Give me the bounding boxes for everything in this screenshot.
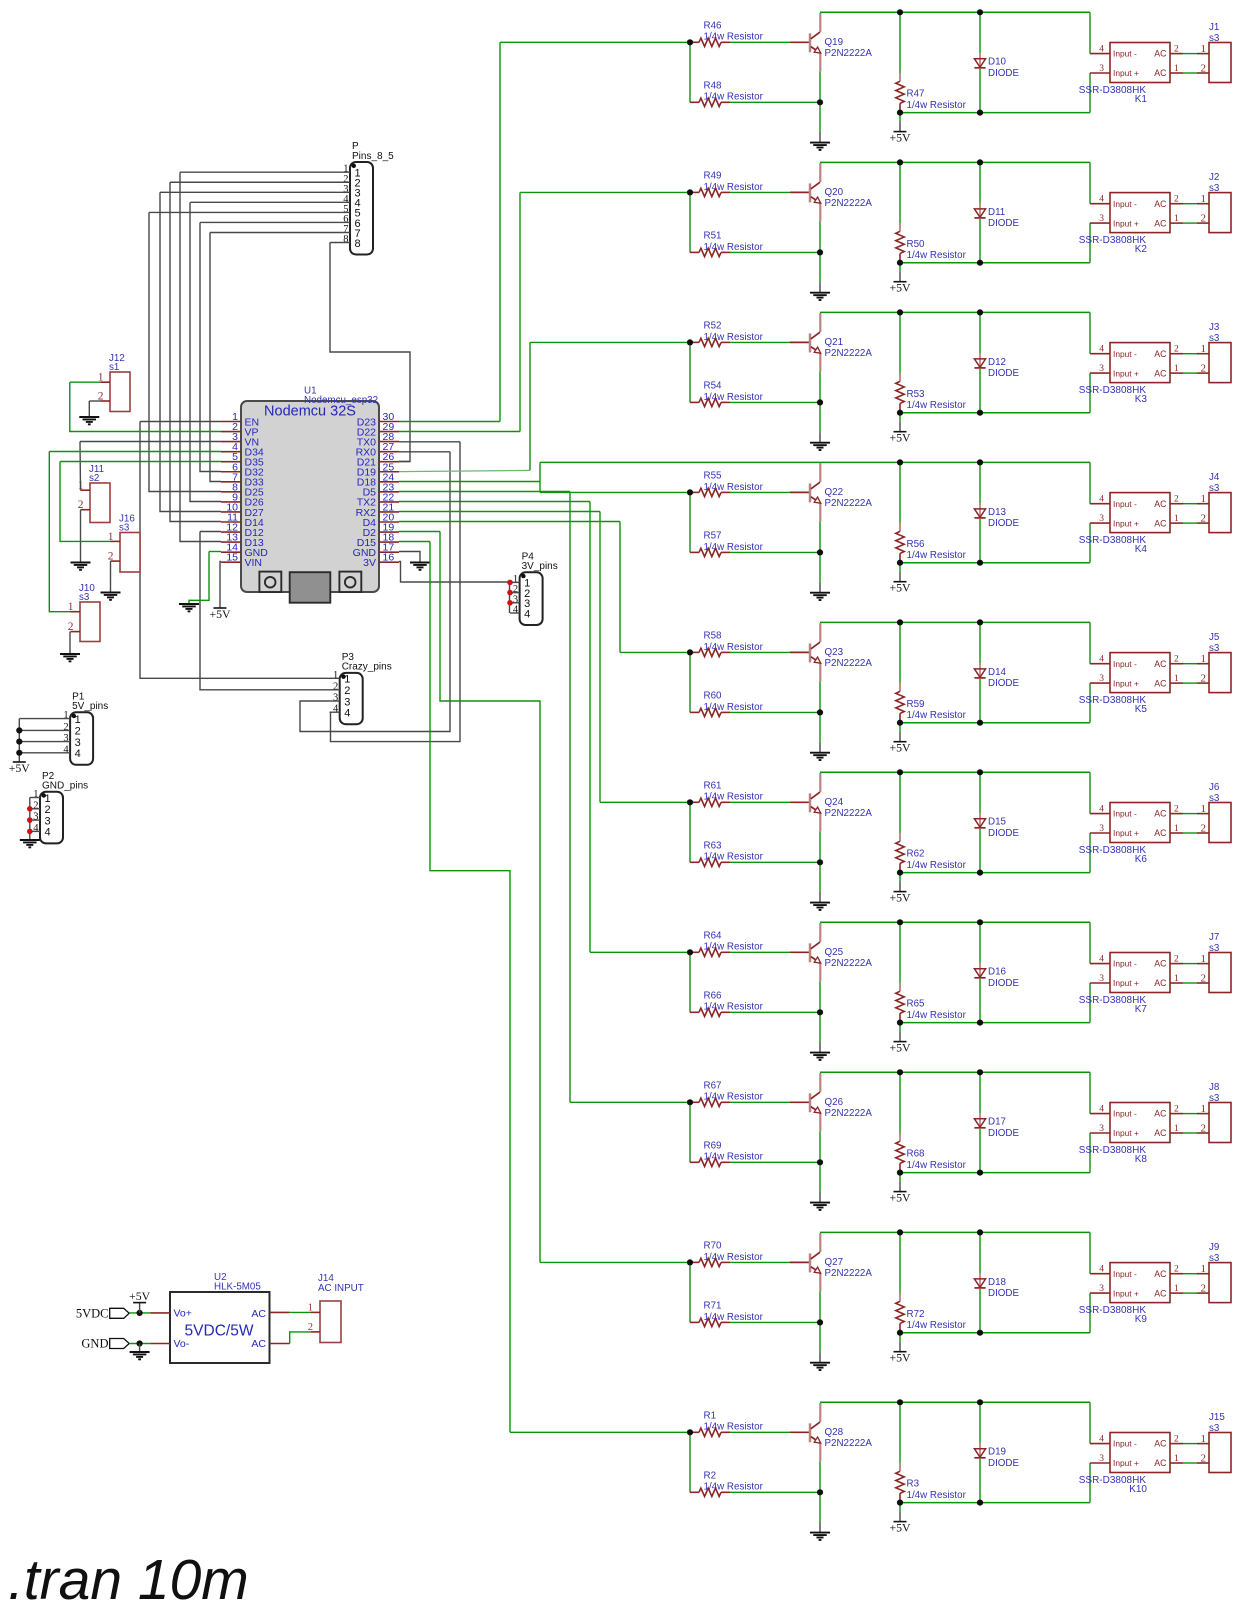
svg-text:Q25: Q25: [825, 947, 844, 958]
svg-text:R66: R66: [704, 991, 723, 1002]
svg-text:2: 2: [1201, 212, 1207, 224]
wire emitter to ground: [819, 981, 821, 1042]
svg-text:R46: R46: [704, 21, 723, 32]
resistor R72 1/4w: [896, 1293, 904, 1332]
relay K1 SSR-D3808HK: [1090, 43, 1183, 83]
wire rail to R62: [899, 772, 901, 833]
svg-text:P2N2222A: P2N2222A: [825, 808, 873, 819]
junction: [897, 1020, 903, 1026]
junction: [977, 110, 983, 116]
svg-text:1: 1: [63, 710, 68, 721]
wire relay AC to connector: [1183, 503, 1197, 505]
ground: [810, 1203, 830, 1210]
svg-text:1: 1: [75, 714, 81, 726]
label K6: [1079, 845, 1148, 865]
resistor R69 1/4w: [690, 1158, 730, 1166]
wire relay AC to connector: [1183, 372, 1197, 374]
wire D15 dropper to ch10: [430, 542, 510, 1433]
P2 pin 1 marker: [42, 793, 46, 797]
wire: [689, 492, 691, 552]
P3 pin 1: [333, 670, 350, 686]
wire +5V top rail: [820, 621, 1090, 623]
J11 pin numbers: [78, 480, 84, 512]
svg-text:R52: R52: [704, 321, 722, 332]
wire emitter to ground: [819, 1131, 821, 1192]
svg-text:+5V: +5V: [889, 1351, 911, 1365]
P3 pin 3: [333, 693, 350, 709]
wire D2: [399, 531, 440, 533]
connector J5 s3: [1209, 653, 1231, 693]
svg-text:1: 1: [1174, 1124, 1179, 1134]
svg-text:4: 4: [1099, 955, 1104, 965]
junction: [897, 619, 903, 625]
wire +5V top rail: [820, 1401, 1090, 1403]
wire rail to relay pin 4: [1089, 772, 1091, 813]
wire relay AC to connector: [1183, 1292, 1197, 1294]
relay K10 SSR-D3808HK: [1090, 1433, 1183, 1473]
svg-text:K4: K4: [1135, 544, 1148, 555]
svg-text:Input -: Input -: [1113, 959, 1137, 969]
svg-text:1/4w Resistor: 1/4w Resistor: [704, 942, 764, 953]
wire: [899, 873, 901, 882]
svg-text:4: 4: [1099, 1105, 1104, 1115]
svg-text:D11: D11: [988, 207, 1005, 218]
resistor R59 1/4w: [896, 683, 904, 722]
diode D17: [974, 1113, 985, 1128]
pin numbers K4: [1099, 495, 1179, 524]
pin labels K1: [1113, 49, 1167, 78]
junction: [897, 110, 903, 116]
pin numbers K6: [1099, 805, 1179, 834]
wire relay pin 3 to bottom rail: [1089, 223, 1091, 263]
U1 pin 6 (D32): [221, 461, 264, 478]
wire RX0 to P3 pin3: [300, 452, 450, 732]
wire relay AC to connector: [1183, 982, 1197, 984]
pin numbers K8: [1099, 1105, 1179, 1134]
IC U1 Nodemcu_esp32 body: [241, 401, 379, 592]
svg-text:DIODE: DIODE: [988, 978, 1019, 989]
svg-text:Q20: Q20: [825, 187, 844, 198]
U1 pin 12 (D12): [221, 522, 264, 539]
svg-text:3: 3: [63, 733, 68, 744]
svg-text:s3: s3: [1209, 1423, 1220, 1434]
wire rail to relay pin 4: [1089, 1072, 1091, 1113]
U1 pin 28 (TX0): [357, 431, 399, 448]
wire relay pin 3 to bottom rail: [1089, 73, 1091, 113]
junction: [817, 1319, 823, 1325]
P4 pin 1 marker: [521, 574, 525, 578]
wire RX2: [399, 511, 600, 513]
ground: [810, 593, 830, 600]
svg-text:D17: D17: [988, 1117, 1006, 1128]
resistor R54 1/4w: [690, 398, 730, 406]
svg-text:R49: R49: [704, 171, 722, 182]
svg-text:R71: R71: [704, 1301, 722, 1312]
P1 pin 3: [63, 733, 80, 749]
P pin 1 marker: [352, 164, 356, 168]
wire GND14 to ground: [189, 552, 209, 604]
resistor R55 1/4w: [690, 488, 730, 496]
ground: [810, 443, 830, 450]
svg-text:2: 2: [1174, 955, 1179, 965]
svg-text:4: 4: [1099, 495, 1104, 505]
svg-text:DIODE: DIODE: [988, 518, 1019, 529]
svg-text:K8: K8: [1135, 1154, 1148, 1165]
wire rail to diode: [979, 12, 981, 53]
IC U2 HLK-5M05 body: [170, 1292, 270, 1363]
U1 pin 4 (D34): [221, 441, 264, 458]
pin labels K4: [1113, 499, 1167, 529]
wire base lead: [790, 1101, 809, 1103]
svg-text:HLK-5M05: HLK-5M05: [214, 1282, 261, 1293]
svg-text:AC: AC: [1154, 809, 1167, 819]
wire diode to bottom rail: [979, 369, 981, 413]
junction: [977, 159, 983, 165]
ground: [810, 903, 830, 910]
svg-text:R56: R56: [907, 539, 926, 550]
svg-text:4: 4: [333, 704, 339, 715]
svg-text:1: 1: [1174, 364, 1179, 374]
svg-text:Input -: Input -: [1113, 199, 1137, 209]
J14 pin numbers: [308, 1303, 313, 1334]
wire rail to R59: [899, 622, 901, 683]
svg-text:1/4w Resistor: 1/4w Resistor: [704, 1482, 764, 1493]
wire TX0 to P3 pin4: [330, 442, 461, 742]
resistor R1 1/4w: [690, 1428, 730, 1436]
relay K8 SSR-D3808HK: [1090, 1103, 1183, 1143]
svg-text:Input -: Input -: [1113, 1439, 1137, 1449]
U1 pin 26 (D21): [357, 451, 399, 468]
connector J6 s3: [1209, 803, 1231, 843]
junction: [977, 260, 983, 266]
wire rail to relay pin 4: [1089, 622, 1091, 663]
junction: [687, 189, 693, 195]
wire: [689, 1262, 691, 1322]
svg-text:2: 2: [33, 800, 38, 811]
svg-text:1: 1: [1174, 64, 1179, 74]
U2 AC pin leads: [269, 1312, 289, 1343]
P3 pin stubs: [330, 678, 340, 712]
wire rail to R47: [899, 12, 901, 73]
wire: [899, 272, 901, 282]
junction: [897, 9, 903, 15]
svg-text:R62: R62: [907, 849, 925, 860]
wire bottom rail: [900, 1022, 1090, 1024]
wire: [689, 42, 691, 102]
ground GND17: [410, 563, 430, 570]
wire P pin3: [160, 191, 350, 193]
svg-text:1/4w Resistor: 1/4w Resistor: [704, 92, 764, 103]
power flag +5V: [9, 761, 31, 775]
U1 pin 2 (VP): [221, 421, 259, 438]
wire: [899, 1333, 901, 1342]
svg-text:3: 3: [1099, 364, 1104, 374]
svg-text:+5V: +5V: [889, 1190, 911, 1204]
svg-text:.tran 10m: .tran 10m: [8, 1548, 249, 1612]
label P4: [522, 552, 558, 573]
svg-text:2: 2: [333, 681, 338, 692]
svg-text:Q27: Q27: [825, 1257, 844, 1268]
wire: [730, 1161, 820, 1163]
svg-text:2: 2: [1201, 362, 1207, 374]
svg-text:R50: R50: [907, 239, 926, 250]
svg-text:4: 4: [75, 748, 81, 760]
P3 pin 1 marker: [341, 675, 345, 679]
transistor Q20 P2N2222A: [810, 163, 821, 221]
resistor R68 1/4w: [896, 1133, 904, 1172]
svg-text:Input +: Input +: [1113, 828, 1139, 838]
wire: [730, 1491, 820, 1493]
svg-text:s3: s3: [1209, 1093, 1220, 1104]
wire P pin4: [190, 201, 350, 203]
svg-text:AC: AC: [1154, 828, 1167, 838]
svg-text:AC: AC: [1154, 959, 1167, 969]
wire rail to R68: [899, 1072, 901, 1133]
wire +5V top rail: [820, 1071, 1090, 1073]
wire P pin6: [200, 221, 350, 223]
wire base lead: [790, 951, 809, 953]
P pin 7: [343, 224, 360, 240]
wire +5V top rail: [540, 461, 1090, 463]
svg-text:Input -: Input -: [1113, 809, 1137, 819]
wire P pin7 to D33: [210, 233, 221, 482]
wire emitter to ground: [819, 681, 821, 742]
wire connector pin leads: [1197, 204, 1209, 223]
resistor R58 1/4w: [690, 648, 730, 656]
transistor Q26 P2N2222A: [810, 1073, 821, 1131]
P pin 6: [343, 214, 360, 230]
svg-text:AC: AC: [1154, 199, 1167, 209]
power flag +5V: [209, 607, 231, 621]
no-connect: [507, 600, 513, 606]
svg-text:+5V: +5V: [889, 431, 911, 445]
svg-text:3: 3: [1099, 824, 1104, 834]
junction: [137, 1310, 143, 1316]
wire bottom rail: [900, 1332, 1090, 1334]
connector J16: [120, 533, 140, 573]
wire: [899, 1342, 901, 1352]
svg-text:3: 3: [1099, 514, 1104, 524]
svg-text:1/4w Resistor: 1/4w Resistor: [907, 1160, 967, 1171]
label J10: [79, 583, 95, 603]
wire rail to relay pin 4: [1089, 922, 1091, 963]
wire relay AC to connector: [1183, 53, 1197, 55]
wire: [730, 1321, 820, 1323]
J14 pin2 lead: [311, 1331, 320, 1333]
diode D13: [974, 503, 985, 518]
wire emitter to ground: [819, 371, 821, 432]
wire D15: [399, 541, 430, 543]
svg-text:Input +: Input +: [1113, 978, 1139, 988]
svg-text:Input -: Input -: [1113, 349, 1137, 359]
junction: [137, 1340, 143, 1346]
resistor R71 1/4w: [690, 1318, 730, 1326]
resistor R61 1/4w: [690, 798, 730, 806]
svg-text:J2: J2: [1209, 172, 1219, 183]
junction: [897, 459, 903, 465]
wire diode to bottom rail: [979, 219, 981, 263]
svg-text:1/4w Resistor: 1/4w Resistor: [907, 1320, 967, 1331]
svg-text:+5V: +5V: [889, 281, 911, 295]
junction: [897, 1500, 903, 1506]
svg-text:1: 1: [1174, 1454, 1179, 1464]
resistor R70 1/4w: [690, 1258, 730, 1266]
svg-text:DIODE: DIODE: [988, 1128, 1019, 1139]
wire base lead: [790, 41, 809, 43]
wire to base: [730, 951, 790, 953]
power flag +5V: [129, 1289, 151, 1303]
diode D18: [974, 1273, 985, 1288]
power flag +5V: [889, 431, 911, 445]
connector J10: [80, 602, 100, 642]
wire J12 to VP: [70, 382, 221, 431]
svg-text:1/4w Resistor: 1/4w Resistor: [907, 100, 967, 111]
svg-text:2: 2: [1174, 1265, 1179, 1275]
wire rail to diode: [979, 462, 981, 503]
wire +5V top rail: [820, 161, 1090, 163]
svg-text:4: 4: [513, 605, 519, 616]
svg-text:1/4w Resistor: 1/4w Resistor: [704, 332, 764, 343]
svg-text:2: 2: [1201, 672, 1207, 684]
connector J8 s3: [1209, 1103, 1231, 1143]
svg-text:K9: K9: [1135, 1314, 1148, 1325]
svg-text:1/4w Resistor: 1/4w Resistor: [907, 860, 967, 871]
connector J15 s3: [1209, 1433, 1231, 1473]
ground P2: [20, 840, 40, 847]
svg-text:1: 1: [1201, 953, 1207, 965]
wire bottom rail: [900, 1172, 1090, 1174]
svg-text:2: 2: [1201, 1452, 1207, 1464]
svg-text:2: 2: [1174, 495, 1179, 505]
svg-text:P2N2222A: P2N2222A: [825, 958, 873, 969]
wire: [899, 122, 901, 132]
svg-text:4: 4: [1099, 45, 1104, 55]
wire D21 stub: [399, 461, 410, 463]
svg-text:4: 4: [1099, 195, 1104, 205]
svg-text:Input +: Input +: [1113, 68, 1139, 78]
wire diode to bottom rail: [979, 679, 981, 723]
wire relay pin 3 to bottom rail: [1089, 983, 1091, 1023]
svg-text:1/4w Resistor: 1/4w Resistor: [704, 482, 764, 493]
resistor R3 1/4w: [896, 1463, 904, 1502]
transistor Q19 P2N2222A: [810, 13, 821, 71]
svg-text:K7: K7: [1135, 1004, 1148, 1015]
U1 pin 14 (GND): [221, 542, 268, 559]
svg-text:+5V: +5V: [889, 130, 911, 144]
svg-text:5VDC: 5VDC: [76, 1306, 109, 1320]
svg-text:3: 3: [45, 815, 51, 827]
svg-text:3V: 3V: [363, 557, 376, 569]
svg-text:J9: J9: [1209, 1242, 1219, 1253]
svg-text:AC: AC: [1154, 49, 1167, 59]
J10 pin numbers: [68, 601, 74, 633]
pin numbers J15: [1201, 1433, 1207, 1464]
diode D12: [974, 353, 985, 368]
svg-text:1: 1: [1174, 674, 1179, 684]
wire connector pin leads: [1197, 814, 1209, 833]
svg-text:AC: AC: [1154, 678, 1167, 688]
transistor Q22 P2N2222A: [810, 463, 821, 521]
svg-text:R2: R2: [704, 1471, 717, 1482]
connector P Pins_8_5: [350, 162, 373, 255]
J11 pin leads: [81, 490, 91, 510]
connector P1: [70, 712, 93, 765]
svg-text:2: 2: [1174, 1105, 1179, 1115]
U1 USB connector tab: [290, 572, 331, 603]
svg-text:AC: AC: [1154, 368, 1167, 378]
svg-text:R48: R48: [704, 81, 723, 92]
wire: [899, 263, 901, 272]
P4 pin 3: [513, 594, 530, 610]
wire diode to bottom rail: [979, 1289, 981, 1333]
svg-text:Pins_8_5: Pins_8_5: [352, 151, 394, 162]
transistor Q28 P2N2222A: [810, 1403, 821, 1461]
wire P pin2 to D14: [170, 182, 221, 521]
wire AC1: [290, 1311, 311, 1313]
wire relay AC to connector: [1183, 72, 1197, 74]
U1 mounting hole right: [339, 572, 361, 592]
P2 no-connect stubs: [30, 809, 40, 832]
wire P pin8 to D21: [330, 243, 410, 462]
pin labels K6: [1113, 809, 1167, 839]
wire D2 dropper to ch9: [440, 532, 540, 1263]
resistor R62 1/4w: [896, 833, 904, 872]
diode D16: [974, 963, 985, 978]
svg-text:2: 2: [1201, 972, 1207, 984]
wire +5V top rail: [820, 921, 1090, 923]
junction: [687, 1099, 693, 1105]
svg-text:4: 4: [1099, 345, 1104, 355]
P pin 3: [343, 184, 360, 200]
svg-text:1/4w Resistor: 1/4w Resistor: [907, 550, 967, 561]
label J16: [119, 513, 135, 533]
svg-text:1/4w Resistor: 1/4w Resistor: [704, 1312, 764, 1323]
U1 pin 24 (D18): [357, 471, 399, 488]
wire to base: [730, 651, 790, 653]
label J2: [1209, 172, 1220, 194]
wire: [899, 882, 901, 892]
U1 pin 30 (D23): [357, 411, 399, 428]
wire relay AC to connector: [1183, 1273, 1197, 1275]
wire rail to diode: [979, 162, 981, 203]
svg-text:DIODE: DIODE: [988, 68, 1019, 79]
wire base lead: [790, 801, 809, 803]
svg-text:3: 3: [1099, 1284, 1104, 1294]
svg-text:1/4w Resistor: 1/4w Resistor: [907, 400, 967, 411]
pin numbers J6: [1201, 803, 1207, 834]
wire D18: [399, 481, 540, 483]
no-connect: [27, 829, 33, 835]
svg-text:R60: R60: [704, 691, 723, 702]
svg-text:1: 1: [1174, 214, 1179, 224]
wire D12 stub: [200, 531, 221, 533]
svg-text:5V_pins: 5V_pins: [72, 701, 108, 712]
svg-text:2: 2: [1201, 512, 1207, 524]
svg-text:3: 3: [1099, 64, 1104, 74]
wire J16 pin2: [110, 561, 112, 592]
wire relay AC to connector: [1183, 832, 1197, 834]
wire relay AC to connector: [1183, 813, 1197, 815]
wire D23 riser to ch1: [499, 42, 501, 421]
svg-text:AC INPUT: AC INPUT: [318, 1283, 364, 1294]
wire emitter to ground: [819, 831, 821, 892]
power flag +5V: [889, 130, 911, 144]
wire EN to P3 pin1: [140, 422, 330, 679]
wire relay pin 3 to bottom rail: [1089, 373, 1091, 413]
junction: [977, 1500, 983, 1506]
svg-text:s1: s1: [109, 362, 119, 373]
wire: [899, 413, 901, 422]
